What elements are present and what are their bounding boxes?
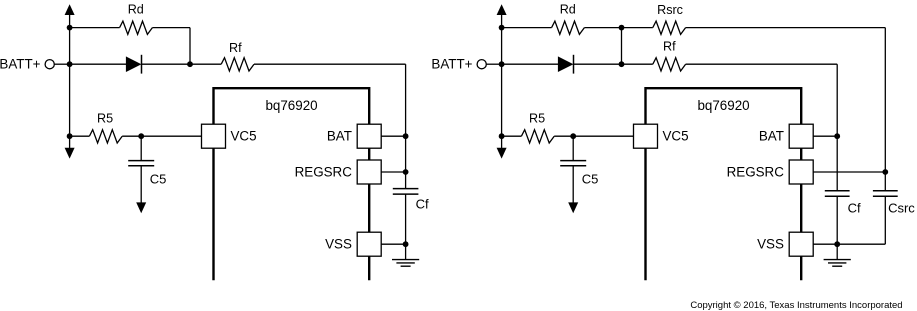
capacitor C5 (560, 161, 586, 166)
wire R5 to C5 node (554, 135, 573, 137)
svg-text:R5: R5 (529, 112, 545, 126)
ground (392, 260, 419, 267)
wire bus to Rd (70, 27, 120, 29)
diode D2 (558, 55, 574, 74)
wire Rsrc to Csrc corner (686, 27, 886, 29)
svg-text:BATT+: BATT+ (431, 56, 472, 71)
wire bus to diode anode (70, 63, 126, 65)
wire bus upper segment (501, 28, 503, 65)
svg-text:C5: C5 (582, 172, 599, 187)
svg-text:bq76920: bq76920 (265, 98, 317, 113)
pin BAT (789, 124, 813, 148)
wire bus to R5 (70, 135, 90, 137)
svg-text:REGSRC: REGSRC (295, 164, 353, 179)
pin VSS (789, 232, 813, 256)
arrow up (to cell stack) (497, 4, 507, 27)
junction BAT feed (403, 133, 409, 139)
svg-text:VSS: VSS (757, 237, 784, 252)
junction diode cathode node (619, 61, 625, 67)
svg-text:Rf: Rf (663, 40, 676, 54)
label R5 (529, 112, 545, 126)
wire Rf to BAT feed (254, 63, 406, 65)
label C5 (150, 172, 167, 187)
svg-text:VSS: VSS (325, 237, 352, 252)
wire Rd to branch corner (584, 27, 621, 29)
junction VSS node (403, 241, 409, 247)
capacitor Cf (393, 189, 419, 195)
pin VSS (357, 232, 381, 256)
wire C5 node to VC5 pin (573, 135, 633, 137)
wire Csrc to bottom (884, 197, 886, 245)
label Rf (663, 40, 676, 54)
copyright notice (690, 300, 902, 311)
junction diode cathode node (187, 61, 193, 67)
label REGSRC (727, 164, 785, 179)
svg-text:Rf: Rf (229, 41, 242, 55)
capacitor C5 (128, 161, 154, 166)
label Csrc (888, 200, 915, 215)
junction bus R5 (67, 133, 73, 139)
wire BAT feed vertical (836, 64, 838, 190)
svg-text:Cf: Cf (416, 196, 429, 211)
resistor Rd (552, 21, 585, 34)
label BAT (327, 128, 352, 143)
junction bus top (67, 25, 73, 31)
wire bus to Rd (502, 27, 552, 29)
resistor Rd (120, 21, 153, 34)
svg-text:bq76920: bq76920 (697, 98, 749, 113)
junction REGSRC Csrc node (882, 169, 888, 175)
node BATT+ label (right) (431, 56, 472, 71)
junction bus top (499, 25, 505, 31)
junction BAT feed (834, 133, 840, 139)
resistor R5 (521, 130, 554, 143)
wire Rd to branch corner (152, 27, 190, 29)
label Rsrc (657, 3, 683, 17)
wire diode cathode to node (142, 63, 190, 65)
wire branch vertical (189, 28, 191, 65)
diode D1 (126, 55, 142, 74)
terminal BATT+ (45, 60, 54, 69)
wire Cf to VSS node (836, 197, 838, 260)
svg-text:Csrc: Csrc (888, 200, 915, 215)
svg-text:R5: R5 (97, 112, 113, 126)
arrow down (to cell stack) (497, 136, 507, 158)
wire bus lower segment (501, 64, 503, 136)
wire node to Rf (622, 63, 653, 65)
junction C5 node (138, 133, 144, 139)
terminal BATT+ (477, 60, 486, 69)
wire feed vertical to Cf (405, 64, 407, 188)
arrow down (to cell stack) (65, 136, 75, 158)
wire bus lower segment (69, 64, 71, 136)
wire bus upper segment (69, 28, 71, 65)
svg-text:BAT: BAT (759, 128, 784, 143)
capacitor Cf (825, 191, 850, 197)
wire node to Rf (190, 63, 221, 65)
label Rf (229, 41, 242, 55)
ground arrow below C5 (136, 166, 146, 213)
wire Rf to BAT feed (686, 63, 838, 65)
resistor Rsrc (653, 21, 686, 34)
junction REGSRC feed (403, 169, 409, 175)
wire bus to R5 (502, 135, 522, 137)
arrow up (to cell stack) (65, 4, 75, 27)
label Rd (128, 3, 144, 17)
wire REGSRC pin to Csrc feed (813, 171, 885, 173)
resistor Rf (221, 58, 254, 71)
junction bus R5 (499, 133, 505, 139)
wire R5 to C5 node (122, 135, 141, 137)
ground (824, 260, 851, 267)
svg-text:BATT+: BATT+ (0, 56, 41, 71)
svg-text:C5: C5 (150, 172, 167, 187)
label VC5 (231, 128, 257, 143)
junction VSS node (834, 241, 840, 247)
label VSS (325, 237, 352, 252)
label bq76920 (265, 98, 317, 113)
pin VC5 (634, 124, 658, 148)
wire Csrc feed vertical (884, 28, 886, 172)
junction C5 node (570, 133, 576, 139)
svg-text:VC5: VC5 (231, 128, 257, 143)
svg-text:REGSRC: REGSRC (727, 164, 785, 179)
wire C5 top lead (572, 136, 574, 160)
label Rd (560, 3, 576, 17)
pin REGSRC (789, 160, 813, 184)
svg-text:Rd: Rd (560, 3, 576, 17)
wire branch vertical (621, 28, 623, 65)
label REGSRC (295, 164, 353, 179)
junction bus main (499, 61, 505, 67)
label C5 (582, 172, 599, 187)
wire Csrc return to VSS node (837, 243, 885, 245)
pin BAT (357, 124, 381, 148)
wire node to Rsrc (622, 27, 653, 29)
svg-text:VC5: VC5 (663, 128, 689, 143)
wire C5 node to VC5 pin (141, 135, 201, 137)
label Cf (848, 200, 861, 215)
label VC5 (663, 128, 689, 143)
junction bus main (67, 61, 73, 67)
pin REGSRC (357, 160, 381, 184)
label R5 (97, 112, 113, 126)
svg-text:Rd: Rd (128, 3, 144, 17)
label BAT (759, 128, 784, 143)
pin VC5 (202, 124, 226, 148)
wire REGSRC pin to feed (381, 171, 405, 173)
wire BAT pin to feed (813, 135, 837, 137)
svg-text:BAT: BAT (327, 128, 352, 143)
svg-text:Cf: Cf (848, 200, 861, 215)
svg-text:Rsrc: Rsrc (657, 3, 683, 17)
wire diode cathode to node (574, 63, 622, 65)
wire BATT+ terminal to bus (54, 63, 69, 65)
IC U1 bq76920 outline (214, 88, 370, 280)
junction Rd/Rsrc node (619, 25, 625, 31)
label bq76920 (697, 98, 749, 113)
wire VSS pin to node (381, 243, 405, 245)
resistor R5 (89, 130, 122, 143)
node BATT+ label (0, 56, 41, 71)
wire BATT+ terminal to bus (486, 63, 501, 65)
svg-text:Copyright © 2016, Texas Instru: Copyright © 2016, Texas Instruments Inco… (690, 300, 902, 311)
wire Cf to VSS node (405, 194, 407, 259)
ground arrow below C5 (568, 166, 578, 213)
wire C5 top lead (140, 136, 142, 160)
wire BAT pin to feed (381, 135, 405, 137)
resistor Rf (653, 58, 686, 71)
label VSS (757, 237, 784, 252)
wire bus to diode anode (502, 63, 558, 65)
capacitor Csrc (873, 191, 898, 197)
wire Csrc node to cap (884, 172, 886, 191)
label Cf (416, 196, 429, 211)
wire VSS pin to node (813, 243, 837, 245)
IC U2 bq76920 outline (646, 88, 802, 280)
